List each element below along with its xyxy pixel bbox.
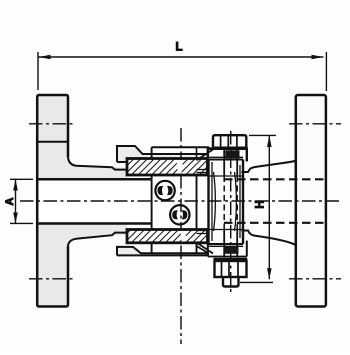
svg-text:H: H bbox=[255, 200, 267, 208]
svg-text:L: L bbox=[175, 42, 182, 54]
svg-text:A: A bbox=[4, 197, 16, 205]
